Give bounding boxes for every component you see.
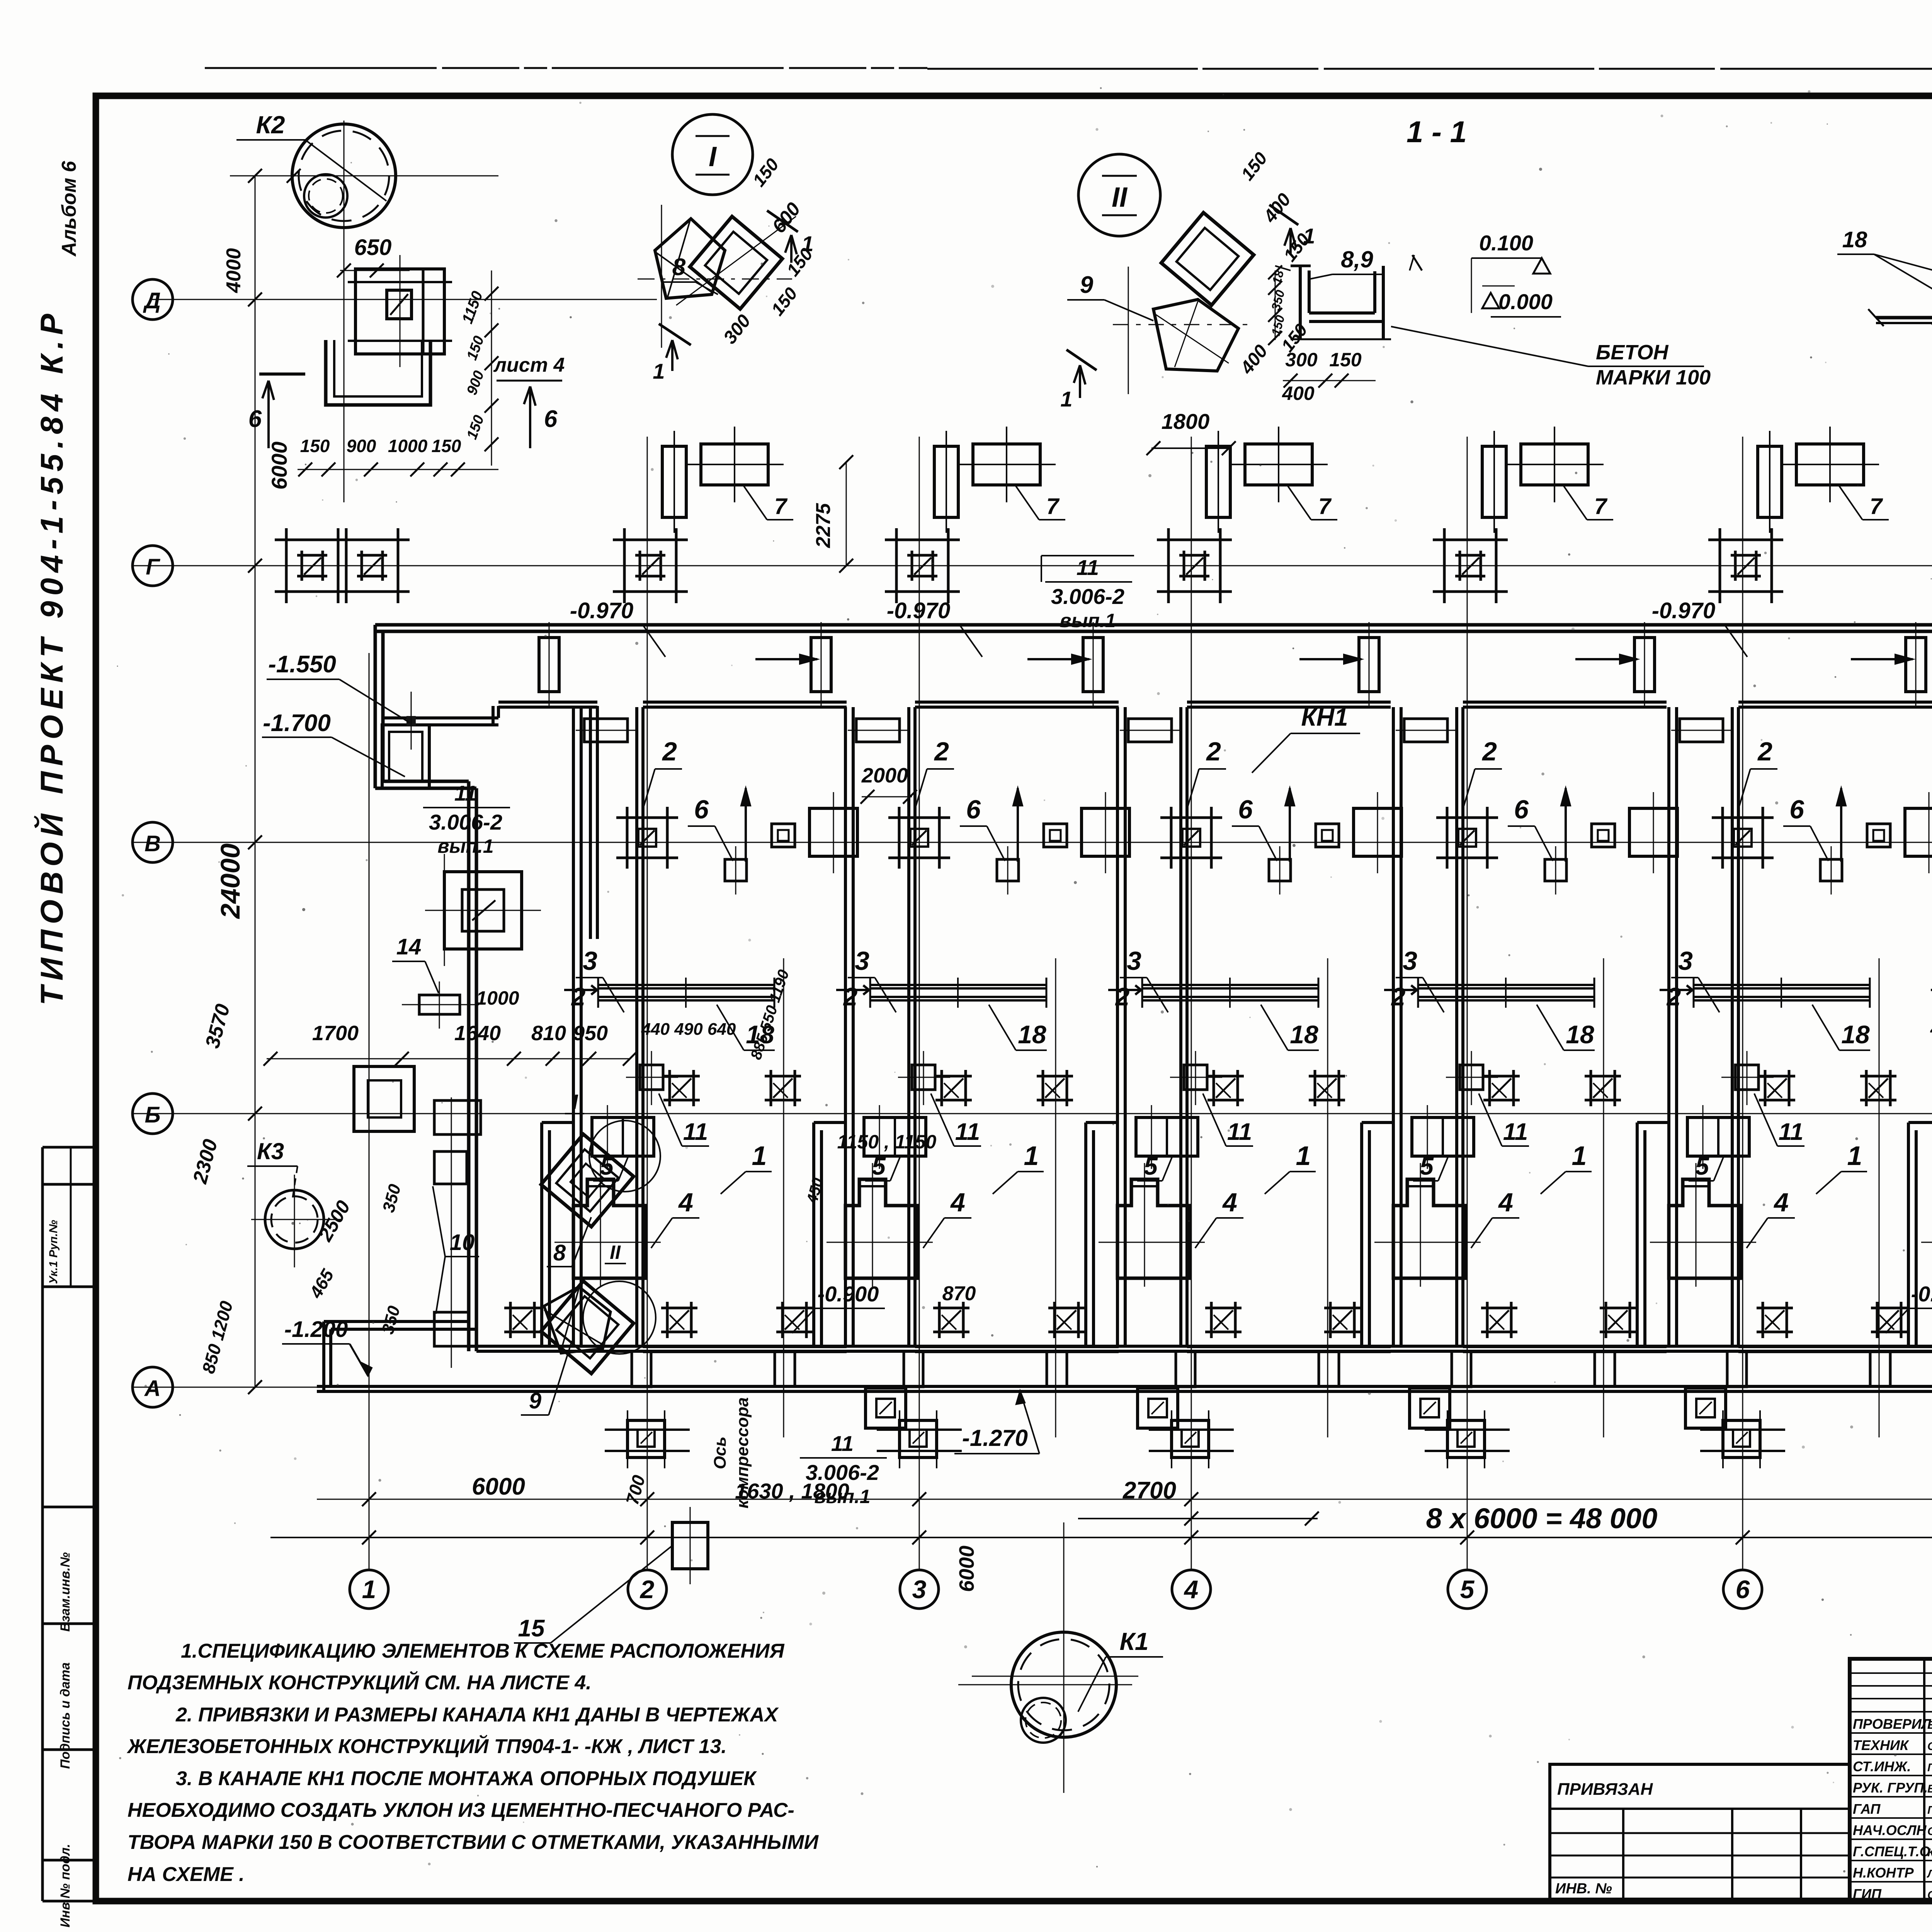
svg-text:7: 7 <box>1594 494 1608 519</box>
svg-text:1 - 1: 1 - 1 <box>1406 115 1467 149</box>
svg-text:15: 15 <box>518 1615 545 1642</box>
svg-text:5: 5 <box>872 1152 886 1180</box>
svg-text:8 x 6000 = 48 000: 8 x 6000 = 48 000 <box>1426 1502 1658 1534</box>
svg-text:3. В КАНАЛЕ КН1 ПОСЛЕ МОНТ: 3. В КАНАЛЕ КН1 ПОСЛЕ МОНТАЖА ОПОРНЫХ ПО… <box>176 1767 757 1790</box>
svg-text:ПОДЗЕМНЫХ КОНСТРУКЦИЙ СМ. Н: ПОДЗЕМНЫХ КОНСТРУКЦИЙ СМ. НА ЛИСТЕ 4. <box>128 1671 592 1694</box>
svg-text:3: 3 <box>1678 946 1693 976</box>
В axis foundation at column <box>1160 816 1222 819</box>
bay bottom wall / channel top line <box>469 1345 1932 1348</box>
foundation 4 stepped block <box>1117 1179 1190 1278</box>
svg-text:К2: К2 <box>256 111 285 139</box>
detail II section arrows <box>1269 205 1298 225</box>
svg-text:300: 300 <box>1285 349 1318 371</box>
mid-bay centerline <box>1879 958 1880 1437</box>
svg-text:2: 2 <box>1115 982 1130 1011</box>
svg-text:-1.270: -1.270 <box>962 1425 1028 1451</box>
А row hatched square mid <box>1205 1307 1242 1310</box>
svg-text:-1.200: -1.200 <box>284 1317 348 1342</box>
foundation below А at column <box>1723 1420 1760 1458</box>
svg-text:8: 8 <box>553 1240 566 1265</box>
Д detail U-shaped wall <box>326 340 430 405</box>
gap wall left pair <box>1667 707 1670 1346</box>
Б row hatched square mid <box>663 1075 700 1078</box>
foundation 5 double rect <box>592 1117 654 1156</box>
svg-text:1: 1 <box>653 359 665 383</box>
svg-text:150: 150 <box>300 436 330 456</box>
mid-bay А foundation <box>1138 1388 1178 1428</box>
svg-text:2000: 2000 <box>861 764 908 787</box>
svg-text:24000: 24000 <box>215 844 245 920</box>
svg-text:Б: Б <box>145 1102 160 1128</box>
interior up arrow <box>1565 788 1567 862</box>
svg-text:870: 870 <box>942 1282 976 1305</box>
svg-text:150: 150 <box>432 436 461 456</box>
svg-text:К1: К1 <box>1120 1628 1149 1655</box>
foundation 5 double rect <box>1687 1117 1749 1156</box>
signature table top thin rows <box>1850 1672 1932 1674</box>
item 7 horizontal pad near column 5 <box>1521 444 1588 485</box>
secondary wall left of gap below Б <box>542 1121 573 1124</box>
svg-text:5: 5 <box>1144 1152 1158 1180</box>
svg-text:Г.СПЕЦ.Т.О: Г.СПЕЦ.Т.О <box>1853 1844 1930 1859</box>
mid-bay centerline <box>1055 958 1056 1437</box>
right vertical dim 2275 left instance <box>846 462 847 566</box>
bay interior bottom wall <box>643 1345 847 1348</box>
svg-text:8,9: 8,9 <box>1341 247 1373 272</box>
svg-text:1000: 1000 <box>388 436 428 456</box>
mid-bay centerline <box>1603 958 1604 1437</box>
channel pad at column <box>1727 1351 1747 1387</box>
gap wall right pair <box>1731 707 1734 1346</box>
foundation 2 rect at interior right <box>1629 808 1677 856</box>
svg-text:4: 4 <box>678 1188 693 1217</box>
secondary wall left of gap below Б <box>1908 1121 1932 1124</box>
gap wall right pair <box>635 707 638 1346</box>
mid-bay А foundation <box>1410 1388 1450 1428</box>
pad inside gap <box>584 719 628 742</box>
detail diamond I in plan <box>541 1134 634 1227</box>
Б row hatched square right <box>1309 1075 1345 1078</box>
vertical pad above Г near column 2 <box>662 446 686 517</box>
svg-text:I: I <box>709 141 717 172</box>
svg-text:Взам.инв.№: Взам.инв.№ <box>58 1552 73 1632</box>
channel mid-bay jog <box>775 1351 795 1386</box>
interior up arrow <box>1289 788 1291 862</box>
bay interior top wall <box>915 701 1119 704</box>
svg-text:3: 3 <box>583 946 597 976</box>
foundation 11 square on Б <box>1460 1065 1483 1090</box>
svg-text:6: 6 <box>1238 795 1253 824</box>
svg-text:2: 2 <box>843 982 858 1011</box>
south-west corner notch <box>322 1321 325 1391</box>
svg-text:КН1: КН1 <box>1301 703 1348 731</box>
svg-text:БЕСКОРОВАЙНЫЙ: БЕСКОРОВАЙНЫЙ <box>1927 1718 1932 1731</box>
svg-text:1: 1 <box>1847 1141 1862 1171</box>
Г axis foundation left of column 1 <box>275 539 350 541</box>
А row hatched square mid <box>1757 1307 1793 1310</box>
bay interior bottom wall <box>1463 1345 1667 1348</box>
svg-text:-0.900: -0.900 <box>818 1282 879 1306</box>
signature table column lines <box>1923 1659 1925 1901</box>
wall between pit area and first bay <box>589 706 592 939</box>
Б foundation big open square first bay <box>354 1066 414 1131</box>
svg-text:ГАП: ГАП <box>1853 1801 1881 1817</box>
svg-text:6000: 6000 <box>267 442 291 490</box>
svg-text:ТИПОВОЙ ПРОЕКТ 904-1-55.84 К.Р: ТИПОВОЙ ПРОЕКТ 904-1-55.84 К.Р <box>34 308 70 1005</box>
svg-text:2: 2 <box>1481 737 1497 766</box>
svg-text:ПРОВЕРИЛ: ПРОВЕРИЛ <box>1853 1716 1932 1732</box>
row axis line В <box>131 842 1932 843</box>
rails item 18 <box>1142 984 1318 986</box>
Б row hatched square mid <box>1759 1075 1795 1078</box>
svg-text:1640: 1640 <box>454 1022 501 1045</box>
Б row hatched square mid <box>1483 1075 1520 1078</box>
row axis line А <box>131 1387 1932 1388</box>
Б row hatched square right <box>1037 1075 1073 1078</box>
А row hatched square left <box>504 1307 541 1310</box>
small square foundation item 6 <box>1269 859 1291 881</box>
rails item 18 <box>1694 984 1870 986</box>
svg-text:СТ.ИНЖ.: СТ.ИНЖ. <box>1853 1759 1911 1774</box>
svg-text:ИНВ. №: ИНВ. № <box>1555 1881 1612 1897</box>
svg-text:МАРКИ 100: МАРКИ 100 <box>1596 366 1711 389</box>
svg-text:2: 2 <box>1206 737 1221 766</box>
А row hatched square left <box>1048 1307 1085 1310</box>
dim 1800 top mid <box>1151 447 1231 449</box>
svg-text:7: 7 <box>1870 494 1883 519</box>
detail II rotated foundation <box>1161 213 1254 305</box>
svg-text:9: 9 <box>529 1388 541 1413</box>
svg-text:В: В <box>145 831 161 856</box>
svg-text:7: 7 <box>1318 494 1332 519</box>
svg-text:I: I <box>572 1090 578 1114</box>
svg-text:3.006-2: 3.006-2 <box>806 1460 879 1485</box>
svg-text:1000: 1000 <box>476 987 519 1009</box>
В axis foundation at column <box>1712 816 1774 819</box>
В axis foundation at column <box>616 816 678 819</box>
small square foundation with insert <box>1316 824 1339 847</box>
svg-text:3: 3 <box>912 1575 927 1604</box>
svg-text:0.000: 0.000 <box>1498 289 1553 314</box>
svg-text:810: 810 <box>531 1022 566 1045</box>
А row hatched square left <box>1324 1307 1361 1310</box>
svg-text:6000: 6000 <box>955 1546 978 1592</box>
corridor direction arrow <box>755 658 817 660</box>
svg-text:ЖЕЛЕЗОБЕТОННЫХ КОНСТРУКЦИЙ Т: ЖЕЛЕЗОБЕТОННЫХ КОНСТРУКЦИЙ ТП904-1- -КЖ … <box>126 1735 727 1758</box>
svg-text:6: 6 <box>248 406 262 432</box>
svg-text:5: 5 <box>1420 1152 1434 1180</box>
pad inside gap <box>1128 719 1172 742</box>
svg-text:вып.1: вып.1 <box>814 1486 870 1507</box>
pad inside gap <box>1404 719 1447 742</box>
corridor pad above gap <box>1359 638 1379 692</box>
item 7 horizontal pad near column 4 <box>1245 444 1312 485</box>
svg-text:5: 5 <box>1460 1575 1475 1604</box>
svg-text:2: 2 <box>662 737 677 766</box>
svg-text:4: 4 <box>1498 1188 1513 1217</box>
svg-text:5: 5 <box>1695 1152 1709 1180</box>
pentagon 9 in plan <box>544 1287 611 1353</box>
corridor pad above gap <box>811 638 831 692</box>
svg-text:СУМАН: СУМАН <box>1927 1740 1932 1753</box>
svg-text:3.006-2: 3.006-2 <box>1051 584 1124 609</box>
svg-text:компрессора: компрессора <box>733 1397 752 1509</box>
item 7 horizontal pad near column 6 <box>1796 444 1864 485</box>
detail circle II in plan <box>583 1281 656 1354</box>
svg-text:11: 11 <box>1077 555 1099 580</box>
svg-text:1800: 1800 <box>1162 409 1210 434</box>
detail II pentagon <box>1153 299 1238 371</box>
pit area bottom wall <box>383 780 469 783</box>
section 2-2 slab profile <box>1876 316 1932 320</box>
foundation 4 stepped block <box>845 1179 918 1278</box>
well K1 inner circle <box>1021 1698 1066 1743</box>
foundation 11 square on Б <box>1735 1065 1759 1090</box>
svg-text:3: 3 <box>855 946 869 976</box>
left margin stamp strip table <box>41 1147 44 1901</box>
corridor direction arrow <box>1851 658 1913 660</box>
mid-bay centerline <box>1327 958 1328 1437</box>
bay interior bottom wall <box>1187 1345 1391 1348</box>
svg-text:Д: Д <box>143 288 161 313</box>
well K1 bottom circle <box>1011 1632 1116 1737</box>
title block outer rect <box>1850 1659 1932 1901</box>
svg-text:К3: К3 <box>257 1138 284 1164</box>
svg-text:РУК. ГРУП.: РУК. ГРУП. <box>1853 1780 1928 1796</box>
vertical pad above Г near column 4 <box>1206 446 1230 517</box>
svg-text:Подпись и дата: Подпись и дата <box>58 1662 73 1769</box>
svg-text:4000: 4000 <box>223 248 245 293</box>
svg-text:-0.970: -0.970 <box>1652 598 1715 623</box>
svg-text:1.СПЕЦИФИКАЦИЮ ЭЛЕМЕНТОВ К: 1.СПЕЦИФИКАЦИЮ ЭЛЕМЕНТОВ К СХЕМЕ РАСПОЛО… <box>181 1640 785 1662</box>
row axis line Г <box>131 565 1932 566</box>
svg-text:6: 6 <box>1789 795 1804 824</box>
svg-text:8: 8 <box>672 254 686 281</box>
svg-text:6000: 6000 <box>472 1473 525 1500</box>
svg-text:11: 11 <box>955 1119 980 1145</box>
gap wall right pair <box>907 707 910 1346</box>
corridor pad above gap <box>539 638 559 692</box>
svg-text:18: 18 <box>1018 1020 1046 1049</box>
small square foundation with insert <box>772 824 795 847</box>
privyazan table <box>1550 1764 1850 1899</box>
secondary wall left of gap below Б <box>1637 1121 1669 1124</box>
rails item 18 <box>870 984 1046 986</box>
svg-text:2: 2 <box>571 982 586 1011</box>
row axis circle Д <box>133 279 173 320</box>
detail I circle <box>672 114 753 195</box>
foundation 11 square on Б <box>640 1065 663 1090</box>
svg-text:ЛУЦЕНКО: ЛУЦЕНКО <box>1927 1868 1932 1880</box>
foundation 11 square on Б <box>912 1065 935 1090</box>
foundation below А at column <box>1172 1420 1209 1458</box>
bay interior top wall <box>1738 701 1932 704</box>
detail I pentagon outline <box>655 219 725 298</box>
foundation 5 double rect <box>864 1117 926 1156</box>
svg-text:3: 3 <box>1127 946 1141 976</box>
svg-text:900: 900 <box>347 436 376 456</box>
svg-text:ТВОРА МАРКИ 150 В СООТВЕТСТВ: ТВОРА МАРКИ 150 В СООТВЕТСТВИИ С ОТМЕТКА… <box>128 1831 819 1854</box>
svg-text:440 490 640: 440 490 640 <box>641 1020 736 1039</box>
square 10 lower <box>434 1312 468 1346</box>
А row hatched square left <box>1600 1307 1636 1310</box>
svg-text:4: 4 <box>1184 1575 1199 1604</box>
svg-text:0.100: 0.100 <box>1479 231 1533 255</box>
svg-text:II: II <box>610 1242 621 1263</box>
svg-text:6: 6 <box>694 795 709 824</box>
small square foundation item 6 <box>1545 859 1566 881</box>
bay interior top wall <box>1187 701 1391 704</box>
svg-text:7: 7 <box>1046 494 1060 519</box>
small square foundation item 6 <box>1820 859 1842 881</box>
svg-text:2700: 2700 <box>1122 1477 1176 1504</box>
detail circle I in plan <box>589 1121 660 1192</box>
svg-text:1: 1 <box>752 1141 767 1171</box>
svg-text:950: 950 <box>573 1022 608 1045</box>
svg-text:-0.970: -0.970 <box>570 598 633 623</box>
row axis circle А <box>133 1367 173 1407</box>
svg-text:4: 4 <box>950 1188 965 1217</box>
bay interior bottom wall <box>915 1345 1119 1348</box>
svg-text:2: 2 <box>934 737 949 766</box>
foundation 2 rect at interior right <box>1905 808 1932 856</box>
Д detail dims right rotated <box>491 270 492 466</box>
channel pad at column <box>904 1351 923 1387</box>
well K2 top-left circle <box>292 124 396 228</box>
west interior wall down to А <box>467 781 471 1351</box>
north-west pit room bottom wall <box>383 716 498 719</box>
svg-text:Инв.№ подл.: Инв.№ подл. <box>58 1844 73 1928</box>
vertical pad above Г near column 6 <box>1758 446 1782 517</box>
svg-text:1: 1 <box>1296 1141 1311 1171</box>
svg-text:Г: Г <box>146 554 160 580</box>
row axis circle Г <box>133 546 173 586</box>
column axis lines 1-9 <box>369 653 370 1570</box>
foundation 4 stepped block <box>1393 1179 1466 1278</box>
detail I section arrow bottom <box>659 324 691 345</box>
svg-text:18: 18 <box>1290 1020 1318 1049</box>
svg-text:Ось: Ось <box>711 1437 730 1469</box>
foundation below А at column <box>900 1420 937 1458</box>
svg-text:6: 6 <box>1736 1575 1750 1604</box>
svg-text:1700: 1700 <box>312 1022 359 1045</box>
left vertical dimension chain line <box>255 299 256 1387</box>
foundation below А at column <box>628 1420 665 1458</box>
svg-text:11: 11 <box>1227 1119 1252 1145</box>
В axis foundation at column <box>1436 816 1498 819</box>
interior up arrow <box>745 788 747 862</box>
svg-text:4: 4 <box>1773 1188 1789 1217</box>
channel pad at column <box>1452 1351 1471 1387</box>
row axis line Б <box>131 1113 1932 1114</box>
item 14 pad <box>419 995 460 1014</box>
secondary wall left of gap below Б <box>814 1121 845 1124</box>
gap wall left pair <box>844 707 847 1346</box>
row axis line Д <box>151 299 657 300</box>
svg-text:18: 18 <box>1842 227 1867 252</box>
svg-text:2: 2 <box>1666 982 1681 1011</box>
svg-text:вып.1: вып.1 <box>437 835 493 857</box>
row axis circle Б <box>133 1094 173 1134</box>
svg-text:1: 1 <box>1572 1141 1587 1171</box>
foundation 2 rect at interior right <box>810 808 857 856</box>
svg-text:НА СХЕМЕ .: НА СХЕМЕ . <box>128 1863 245 1886</box>
svg-text:11: 11 <box>1503 1119 1528 1145</box>
secondary wall left of gap below Б <box>1086 1121 1117 1124</box>
item 15 foundation below А <box>672 1522 708 1569</box>
svg-text:9: 9 <box>1080 272 1094 298</box>
pad inside gap <box>1680 719 1723 742</box>
mid-bay А foundation <box>1685 1388 1726 1428</box>
svg-text:-1.700: -1.700 <box>263 710 331 736</box>
svg-text:ТЕХНИК: ТЕХНИК <box>1853 1737 1910 1753</box>
gap wall left pair <box>1392 707 1395 1346</box>
svg-text:СААКЬЯНЦ: СААКЬЯНЦ <box>1927 1825 1932 1838</box>
А row hatched square left <box>776 1307 813 1310</box>
dim 2700 line and text <box>1078 1518 1318 1519</box>
foundation 2 rect at interior right <box>1082 808 1129 856</box>
А row hatched square mid <box>661 1307 697 1310</box>
svg-text:НАЧ.ОСЛН: НАЧ.ОСЛН <box>1853 1822 1927 1838</box>
Б row hatched square mid <box>935 1075 972 1078</box>
А row hatched square mid <box>933 1307 969 1310</box>
svg-text:2275: 2275 <box>812 503 835 548</box>
svg-text:3.006-2: 3.006-2 <box>429 810 502 834</box>
gap wall left pair <box>1116 707 1119 1346</box>
svg-text:150: 150 <box>1329 349 1362 371</box>
detail I rotated foundation <box>690 216 782 309</box>
foundation 4 stepped block <box>1669 1179 1742 1278</box>
pit hatch mark -1.550 <box>406 716 416 726</box>
section 1-1 profile <box>1291 265 1311 267</box>
foundation 2 rect at interior right <box>1354 808 1401 856</box>
svg-text:11: 11 <box>831 1431 854 1456</box>
А row hatched square mid <box>1481 1307 1517 1310</box>
svg-text:-0.970: -0.970 <box>887 598 950 623</box>
secondary wall left of gap below Б <box>1362 1121 1393 1124</box>
building exterior north wall <box>375 623 1932 627</box>
svg-text:ГИП: ГИП <box>1853 1886 1882 1902</box>
svg-text:Ук.1 Руп.№: Ук.1 Руп.№ <box>47 1220 60 1284</box>
small square foundation with insert <box>1592 824 1615 847</box>
svg-text:-1.550: -1.550 <box>268 651 336 678</box>
svg-text:1150 , 1150: 1150 , 1150 <box>837 1131 937 1153</box>
channel mid-bay jog <box>1870 1351 1890 1386</box>
well K2 inner circle <box>304 174 347 218</box>
detail diamond II in plan <box>541 1281 634 1374</box>
channel mid-bay jog <box>1319 1351 1339 1386</box>
small square foundation with insert <box>1867 824 1890 847</box>
corridor pad above gap <box>1906 638 1926 692</box>
svg-text:II: II <box>1112 182 1128 213</box>
interior up arrow <box>1017 788 1019 862</box>
svg-text:10: 10 <box>450 1230 475 1255</box>
overall dimension line 8x6000=48000 <box>270 1537 1932 1538</box>
signature table rows <box>1850 1732 1932 1734</box>
svg-text:1: 1 <box>1024 1141 1039 1171</box>
gap wall right pair <box>1179 707 1182 1346</box>
small square foundation item 6 <box>997 859 1019 881</box>
column axis circles with numbers <box>350 1570 388 1609</box>
foundation 4 stepped block <box>573 1179 646 1278</box>
channel mid-bay jog <box>1595 1351 1615 1386</box>
vertical pad above Г near column 3 <box>934 446 958 517</box>
mid-bay centerline <box>783 958 784 1437</box>
svg-text:Альбом 6: Альбом 6 <box>58 161 80 257</box>
svg-text:2. ПРИВЯЗКИ И РАЗМЕРЫ КАНАЛ: 2. ПРИВЯЗКИ И РАЗМЕРЫ КАНАЛА КН1 ДАНЫ В … <box>175 1704 779 1726</box>
svg-text:4: 4 <box>1222 1188 1237 1217</box>
rails item 18 <box>1418 984 1594 986</box>
